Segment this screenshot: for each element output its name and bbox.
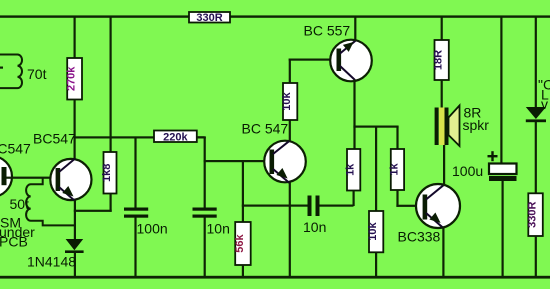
wire: vertical drop at 10n: [204, 137, 206, 208]
svg-text:330R: 330R: [196, 12, 222, 24]
resistor 1k8: [101, 152, 117, 194]
label 8R spkr: [463, 105, 490, 134]
svg-text:1k: 1k: [345, 163, 357, 176]
wire: main horizontal node (Q2 collector to 220k): [74, 136, 205, 138]
svg-text:1N4148: 1N4148: [27, 254, 76, 270]
wire: 1k bottom to coupling cap: [353, 191, 355, 207]
capacitor C3 10n coupling: [308, 196, 354, 217]
transistor Q3 BC547: [264, 141, 306, 183]
inductor L1 70t pickup coil: [0, 54, 22, 88]
svg-text:BC547: BC547: [33, 130, 76, 146]
svg-text:10k: 10k: [281, 91, 293, 110]
speaker LS1 8R: [435, 106, 460, 147]
wire: Q4 emitter to top rail: [354, 16, 356, 41]
svg-text:1k8: 1k8: [101, 164, 113, 182]
svg-text:100n: 100n: [137, 221, 168, 237]
label 70t: [27, 66, 47, 82]
svg-text:BC547: BC547: [0, 141, 31, 157]
svg-text:v: v: [541, 96, 548, 112]
label Q3 BC 547: [242, 121, 289, 137]
wire: branch y=126.5 to 1k (BC338 side): [353, 126, 398, 128]
label Q4 BC 557: [304, 22, 351, 38]
resistor 220k: [154, 131, 197, 144]
svg-text:BC 547: BC 547: [242, 121, 289, 137]
label 10n coupling: [303, 219, 326, 235]
transistor Q4 BC557: [330, 40, 372, 82]
label + polarity: [488, 151, 498, 161]
capacitor C4 100u electrolytic: [489, 164, 517, 278]
wire: base row to Q3: [204, 160, 270, 162]
svg-text:BC 557: BC 557: [304, 22, 351, 38]
svg-text:1k: 1k: [388, 163, 400, 176]
wire: 270k to collector node: [74, 100, 76, 139]
label 1N4148: [27, 254, 76, 270]
resistor 10k (Q3 collector): [281, 83, 297, 120]
label Q5 BC338: [398, 229, 441, 245]
wire: drop to 56k: [242, 161, 244, 222]
wire: 0V bottom rail: [0, 276, 550, 279]
wire: 1k to Q5 base: [396, 190, 422, 207]
inductor L2 50t: [26, 178, 74, 225]
wire: Q4 collector down to 1k: [353, 80, 355, 150]
svg-text:10k: 10k: [367, 222, 379, 241]
wire: top rail to 18R: [441, 16, 443, 40]
label Q2 BC547: [33, 130, 76, 146]
svg-text:100u: 100u: [452, 163, 483, 179]
svg-text:70t: 70t: [27, 66, 47, 82]
svg-text:10n: 10n: [207, 221, 230, 237]
wire: emitter net y=205.5: [242, 205, 308, 207]
wire: Q5 collector to speaker: [443, 144, 445, 186]
wire: 18R to speaker: [441, 80, 443, 108]
svg-text:220k: 220k: [163, 131, 188, 143]
svg-text:BC338: BC338: [398, 229, 441, 245]
wire: top rail to 270k: [74, 16, 76, 59]
transistor Q2 BC547: [50, 159, 91, 201]
note text: SM under PCB: [0, 215, 35, 250]
wire: top rail to LED: [535, 16, 537, 108]
resistor 330R (top rail): [189, 12, 230, 24]
wire: Q3 collector up to 10k: [289, 120, 291, 142]
wire: drop to 10k (bottom): [375, 127, 377, 212]
resistor 270k: [66, 58, 82, 100]
wire: 1k8 bottom drop: [110, 194, 112, 212]
wire: 10k bottom to rail: [375, 252, 377, 276]
label 10n: [207, 221, 230, 237]
wire: +V top rail: [0, 15, 550, 17]
wire: Q5 emitter to ground rail: [442, 227, 444, 277]
label 50t: [10, 196, 30, 212]
svg-text:330R: 330R: [527, 201, 539, 227]
transistor Q1 BC547 (clipped at left edge): [0, 156, 12, 197]
wire: Q1 base to Q2 base: [6, 177, 56, 179]
wire: collector node to Q2: [74, 137, 76, 160]
resistor 1k (first): [345, 149, 361, 191]
svg-text:56k: 56k: [234, 233, 246, 252]
wire: top rail to 100u: [500, 16, 502, 164]
wire: 56k bottom: [242, 265, 244, 277]
resistor 330R (right): [527, 193, 543, 236]
resistor 1k (second): [388, 149, 404, 190]
wire: drop to 1k (second): [396, 127, 398, 150]
transistor Q5 BC338: [416, 184, 460, 228]
label 100n: [137, 221, 168, 237]
svg-text:spkr: spkr: [463, 117, 490, 133]
capacitor C1 100n: [124, 137, 148, 277]
label Q1 BC547: [0, 141, 31, 157]
capacitor C2 10n: [193, 208, 217, 277]
wire: Q3 emitter to ground rail: [289, 182, 291, 277]
svg-text:50t: 50t: [10, 196, 30, 212]
wire: top rail to 1k8: [110, 16, 112, 153]
wire: 10k top to Q4 base: [289, 59, 337, 84]
diode D2 (right edge): [526, 107, 546, 122]
resistor 10k (bottom): [367, 211, 383, 252]
wire: LED to 330R: [535, 122, 537, 194]
svg-text:270k: 270k: [66, 66, 78, 91]
label 100u: [452, 163, 483, 179]
resistor 56k: [234, 222, 251, 265]
svg-text:10n: 10n: [303, 219, 326, 235]
svg-text:PCB: PCB: [0, 234, 28, 250]
wire: emitter to 1k8 link: [74, 210, 112, 212]
wire: Q2 emitter down to diode: [74, 200, 76, 240]
resistor 18R: [433, 40, 449, 80]
note text fragments (clipped at right edge): [538, 77, 550, 113]
diode D1 1N4148: [65, 239, 84, 277]
wire: 330R bottom to rail: [535, 236, 537, 277]
svg-text:18R: 18R: [433, 50, 445, 70]
wire: 220k right to 10n drop: [197, 136, 206, 138]
